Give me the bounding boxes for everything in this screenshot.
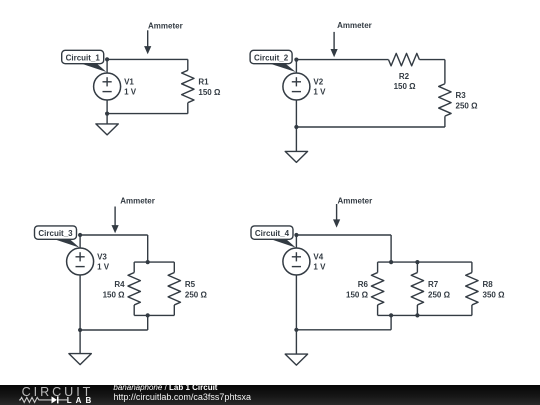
node parallel bottom junction A circuit 4 <box>389 313 393 317</box>
wire top rail circuit 1 <box>107 58 188 60</box>
wire parallel bottom bar circuit 4 <box>378 314 472 316</box>
node junction bottom circuit 3 <box>78 328 82 332</box>
resistor R3 <box>439 83 451 116</box>
wire feed down circuit 4 <box>390 235 392 262</box>
node parallel top junction circuit 3 <box>146 260 150 264</box>
wire V4 bottom <box>295 275 297 330</box>
svg-text:Circuit_4: Circuit_4 <box>255 229 290 238</box>
Circuit_3 callout tail <box>49 237 80 247</box>
ground circuit 2 <box>285 151 307 162</box>
node junction bottom circuit 1 <box>105 112 109 116</box>
wire feed up circuit 4 <box>390 315 392 329</box>
wire top rail circuit 2 left <box>296 59 388 61</box>
wire R3 bottom <box>444 117 446 127</box>
svg-text:1 V: 1 V <box>124 88 137 97</box>
svg-text:R1: R1 <box>198 78 209 87</box>
svg-text:R8: R8 <box>483 280 494 289</box>
Circuit_1 callout tail <box>76 62 107 72</box>
node junction top circuit 4 <box>294 233 298 237</box>
svg-text:Ammeter: Ammeter <box>148 21 183 30</box>
wire V2 bottom <box>295 100 297 127</box>
CircuitLab logo: resistor squiggle + diode glyph <box>19 395 69 405</box>
Circuit_2 callout tail <box>264 62 296 72</box>
svg-text:150 Ω: 150 Ω <box>394 82 417 91</box>
svg-text:R6: R6 <box>358 280 369 289</box>
svg-text:150 Ω: 150 Ω <box>346 290 369 299</box>
wire bottom rail circuit 3 <box>80 329 148 331</box>
wire to ground circuit 4 <box>295 330 297 354</box>
svg-text:1 V: 1 V <box>313 88 326 97</box>
wire V4 top <box>295 235 297 248</box>
Circuit_2 callout box <box>250 50 292 63</box>
Circuit_4 callout box <box>251 226 293 239</box>
wire feed up circuit 3 <box>147 315 149 330</box>
footer bar <box>0 385 540 405</box>
svg-text:250 Ω: 250 Ω <box>456 102 479 111</box>
svg-text:Circuit_2: Circuit_2 <box>254 53 289 62</box>
svg-text:350 Ω: 350 Ω <box>483 290 506 299</box>
svg-text:R3: R3 <box>456 91 467 100</box>
resistor R1 <box>182 59 194 113</box>
wire V1 bottom <box>106 100 108 114</box>
node junction bottom circuit 2 <box>294 125 298 129</box>
ground circuit 3 <box>69 354 91 365</box>
wire bottom rail circuit 2 <box>296 126 445 128</box>
svg-text:R7: R7 <box>428 280 439 289</box>
Circuit_3 callout box <box>35 226 77 239</box>
Circuit_4 callout tail <box>265 237 296 247</box>
svg-text:Circuit_1: Circuit_1 <box>66 53 101 62</box>
node parallel bottom junction B circuit 4 <box>415 313 419 317</box>
resistor R5 <box>168 262 180 315</box>
svg-text:V2: V2 <box>313 77 323 86</box>
resistor R8 <box>466 262 478 315</box>
Circuit_1 callout box <box>62 50 104 63</box>
svg-text:R4: R4 <box>114 280 125 289</box>
wire V2 top <box>295 60 297 74</box>
svg-text:R2: R2 <box>399 72 410 81</box>
footer title line <box>113 384 217 392</box>
svg-text:Ammeter: Ammeter <box>337 21 372 30</box>
node junction top circuit 3 <box>78 233 82 237</box>
resistor R2 <box>389 53 420 65</box>
wire top rail circuit 4 <box>296 234 391 236</box>
node junction top circuit 1 <box>105 57 109 61</box>
svg-text:V4: V4 <box>313 252 323 261</box>
svg-text:250 Ω: 250 Ω <box>428 290 451 299</box>
svg-text:R5: R5 <box>185 280 196 289</box>
voltage source V1 <box>94 73 121 100</box>
node parallel bottom junction circuit 3 <box>146 313 150 317</box>
wire R3 top <box>444 60 446 84</box>
ground circuit 1 <box>96 124 118 135</box>
CircuitLab logo: CIRCUIT <box>22 387 94 397</box>
svg-text:250 Ω: 250 Ω <box>185 290 208 299</box>
wire feed down circuit 3 <box>147 235 149 262</box>
wire V3 top <box>79 235 81 248</box>
voltage source V4 <box>283 248 310 275</box>
svg-text:V1: V1 <box>124 77 134 86</box>
resistor R4 <box>128 262 140 315</box>
wire V1 top <box>106 59 108 73</box>
resistor R6 <box>371 262 383 315</box>
wire top rail circuit 3 <box>80 234 148 236</box>
svg-text:150 Ω: 150 Ω <box>198 88 221 97</box>
ammeter annotation (circuit 1) arrow <box>144 30 151 54</box>
node junction top circuit 2 <box>294 58 298 62</box>
wire bottom rail circuit 4 <box>296 329 391 331</box>
svg-text:Ammeter: Ammeter <box>120 196 155 205</box>
node parallel top junction B circuit 4 <box>415 260 419 264</box>
ammeter annotation (circuit 2) arrow <box>331 32 338 57</box>
wire to ground circuit 2 <box>295 127 297 151</box>
wire bottom rail circuit 1 <box>107 113 188 115</box>
node junction bottom circuit 4 <box>294 328 298 332</box>
wire to ground circuit 1 <box>106 114 108 124</box>
svg-text:Circuit_3: Circuit_3 <box>38 229 73 238</box>
wire to ground circuit 3 <box>79 330 81 354</box>
svg-text:1 V: 1 V <box>97 263 110 272</box>
svg-text:1 V: 1 V <box>313 263 326 272</box>
svg-text:Ammeter: Ammeter <box>338 196 373 205</box>
wire parallel top bar circuit 4 <box>378 261 472 263</box>
ammeter annotation (circuit 4) arrow <box>333 204 340 228</box>
ground circuit 4 <box>285 354 307 365</box>
voltage source V2 <box>283 73 310 100</box>
wire top rail circuit 2 right <box>419 59 445 61</box>
voltage source V3 <box>67 248 94 275</box>
svg-text:150 Ω: 150 Ω <box>103 290 126 299</box>
wire parallel top bar circuit 3 <box>134 261 174 263</box>
footer url line <box>113 393 251 402</box>
resistor R7 <box>411 262 423 315</box>
wire V3 bottom <box>79 275 81 330</box>
ammeter annotation (circuit 3) arrow <box>112 207 119 234</box>
node parallel top junction A circuit 4 <box>389 260 393 264</box>
svg-text:V3: V3 <box>97 252 107 261</box>
wire parallel bottom bar circuit 3 <box>134 314 174 316</box>
CircuitLab logo: LAB <box>67 397 95 405</box>
